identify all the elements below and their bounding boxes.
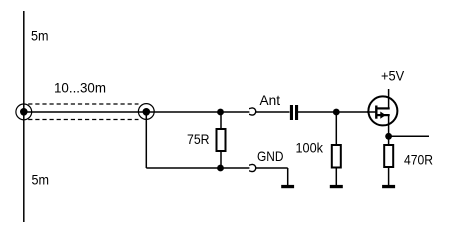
ground (at GND terminal) bbox=[281, 185, 294, 188]
node: source output junction bbox=[385, 133, 392, 140]
resistor R2 100k bbox=[332, 112, 341, 185]
wire: center conductor to Ant terminal bbox=[146, 111, 249, 113]
wire: GND terminal to ground symbol bbox=[256, 168, 288, 185]
ground (under 100k) bbox=[330, 185, 343, 188]
Q1 drain bar bbox=[376, 107, 389, 109]
svg-text:10...30m: 10...30m bbox=[54, 80, 106, 96]
wire: source down bbox=[388, 115, 390, 144]
Q1 source arrow bbox=[380, 112, 386, 119]
coax cable shield (dashed) 10...30m bbox=[28, 104, 138, 120]
wire: gate lead into Q1 bbox=[367, 111, 375, 113]
Q1 gate bar bbox=[375, 106, 377, 119]
svg-text:75R: 75R bbox=[187, 131, 210, 147]
coax connector J2 (right) bbox=[138, 104, 154, 120]
node: junction at top of 100k bbox=[333, 109, 340, 116]
wire: capacitor to gate of Q1 bbox=[298, 111, 375, 113]
node: right connector center pin bbox=[143, 108, 151, 116]
capacitor C1 (coupling) bbox=[290, 105, 298, 120]
wire: antenna mast vertical bbox=[23, 11, 25, 222]
Q1 source bar bbox=[376, 114, 389, 116]
node: junction at bottom of 75R bbox=[217, 165, 224, 172]
terminal: GND (open socket) bbox=[249, 164, 256, 171]
svg-text:Ant: Ant bbox=[260, 92, 281, 108]
terminal: Ant (open socket) bbox=[249, 108, 256, 115]
coax connector J1 (left, on antenna mast) bbox=[16, 104, 32, 120]
node: left connector center pin bbox=[20, 108, 28, 116]
ground (under 470R) bbox=[382, 185, 395, 188]
wire: right connector down to ground rail bbox=[145, 112, 147, 168]
wire: drain to +5V bbox=[388, 89, 390, 108]
transistor Q1 (FET, circled) bbox=[367, 89, 397, 144]
resistor R3 470R bbox=[384, 145, 393, 185]
wire: coax center conductor bbox=[24, 111, 147, 113]
svg-text:5m: 5m bbox=[31, 27, 49, 43]
wire: bottom return rail bbox=[146, 167, 249, 169]
wire: Ant terminal to coupling capacitor bbox=[256, 111, 290, 113]
svg-text:5m: 5m bbox=[32, 171, 50, 187]
svg-text:470R: 470R bbox=[404, 152, 433, 168]
node: junction at top of 75R bbox=[217, 109, 224, 116]
wire: output stub bbox=[389, 135, 429, 137]
svg-text:GND: GND bbox=[257, 148, 284, 164]
svg-text:+5V: +5V bbox=[381, 68, 405, 84]
svg-text:100k: 100k bbox=[296, 140, 324, 156]
resistor R1 75R bbox=[217, 112, 226, 168]
